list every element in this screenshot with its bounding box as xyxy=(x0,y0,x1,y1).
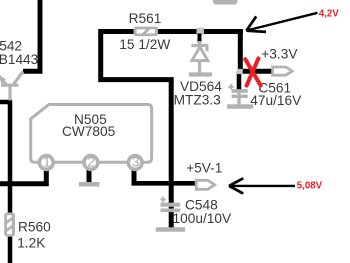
wire black lead from rail to VD564 xyxy=(198,34,202,43)
node junction square on rail at VD564 xyxy=(197,28,204,35)
capacitor C561 xyxy=(228,84,248,105)
transistor Q (B1443, partially cut at left edge) xyxy=(0,72,23,101)
ground bar pin2 xyxy=(79,182,100,187)
wire down to C561 xyxy=(237,71,242,90)
red X annotation over +3.3V wire xyxy=(245,58,260,85)
wire emitter/base net left: horizontal to left edge xyxy=(0,100,12,105)
capacitor C548 xyxy=(160,197,180,211)
ground bar C561 xyxy=(227,104,253,108)
wire right branch: from rail down to +3.3V tag and C561 xyxy=(240,29,272,71)
pin 3 xyxy=(128,156,142,170)
svg-text:CW7805: CW7805 xyxy=(62,124,116,139)
annotation arrow 4,2V xyxy=(246,13,317,32)
svg-text:R561: R561 xyxy=(129,11,162,26)
wire collector of Q (top-left thick vertical with stub) xyxy=(23,0,40,71)
resistor R560 body xyxy=(4,213,15,237)
svg-text:2: 2 xyxy=(87,155,95,170)
wire vertical down to R560 xyxy=(8,100,13,214)
pin 2 xyxy=(84,156,98,170)
wire pin1 of N505 down and left to edge xyxy=(0,168,46,184)
regulator N505 box xyxy=(31,105,152,163)
annotation arrow 5,08V xyxy=(229,178,295,193)
ground bar C548 xyxy=(156,227,185,232)
zener diode VD564 xyxy=(191,41,208,73)
svg-text:100u/10V: 100u/10V xyxy=(173,211,232,226)
svg-text:+5V-1: +5V-1 xyxy=(186,160,222,175)
wire below R560 to bottom edge xyxy=(8,236,13,263)
svg-text:+3.3V: +3.3V xyxy=(261,47,298,62)
wire +5V-1 output horizontal xyxy=(132,181,199,186)
svg-text:1.2K: 1.2K xyxy=(17,236,45,251)
output tag +5V-1 xyxy=(196,180,214,189)
svg-text:4,2V: 4,2V xyxy=(319,8,339,19)
svg-text:5,08V: 5,08V xyxy=(297,181,323,192)
output tag +3.3V xyxy=(273,67,293,75)
resistor R561 body xyxy=(134,27,159,36)
ground bar VD564 xyxy=(189,72,212,76)
svg-text:MTZ3.3: MTZ3.3 xyxy=(174,92,222,107)
gray bar at top edge xyxy=(213,0,238,5)
svg-text:1: 1 xyxy=(43,155,51,170)
node junction square at +3.3V corner xyxy=(237,69,243,74)
wire main rail: top horizontal, left branch down, lower horizontal, main vertical to C548 xyxy=(101,32,243,230)
svg-text:R560: R560 xyxy=(18,219,51,234)
wire pin3 lead xyxy=(132,168,137,185)
pin 1 xyxy=(39,156,53,170)
svg-text:B1443: B1443 xyxy=(0,52,39,67)
svg-text:15 1/2W: 15 1/2W xyxy=(119,37,170,52)
svg-text:47u/16V: 47u/16V xyxy=(250,93,302,108)
svg-text:3: 3 xyxy=(132,155,140,170)
wire pin2 lead xyxy=(87,168,92,183)
